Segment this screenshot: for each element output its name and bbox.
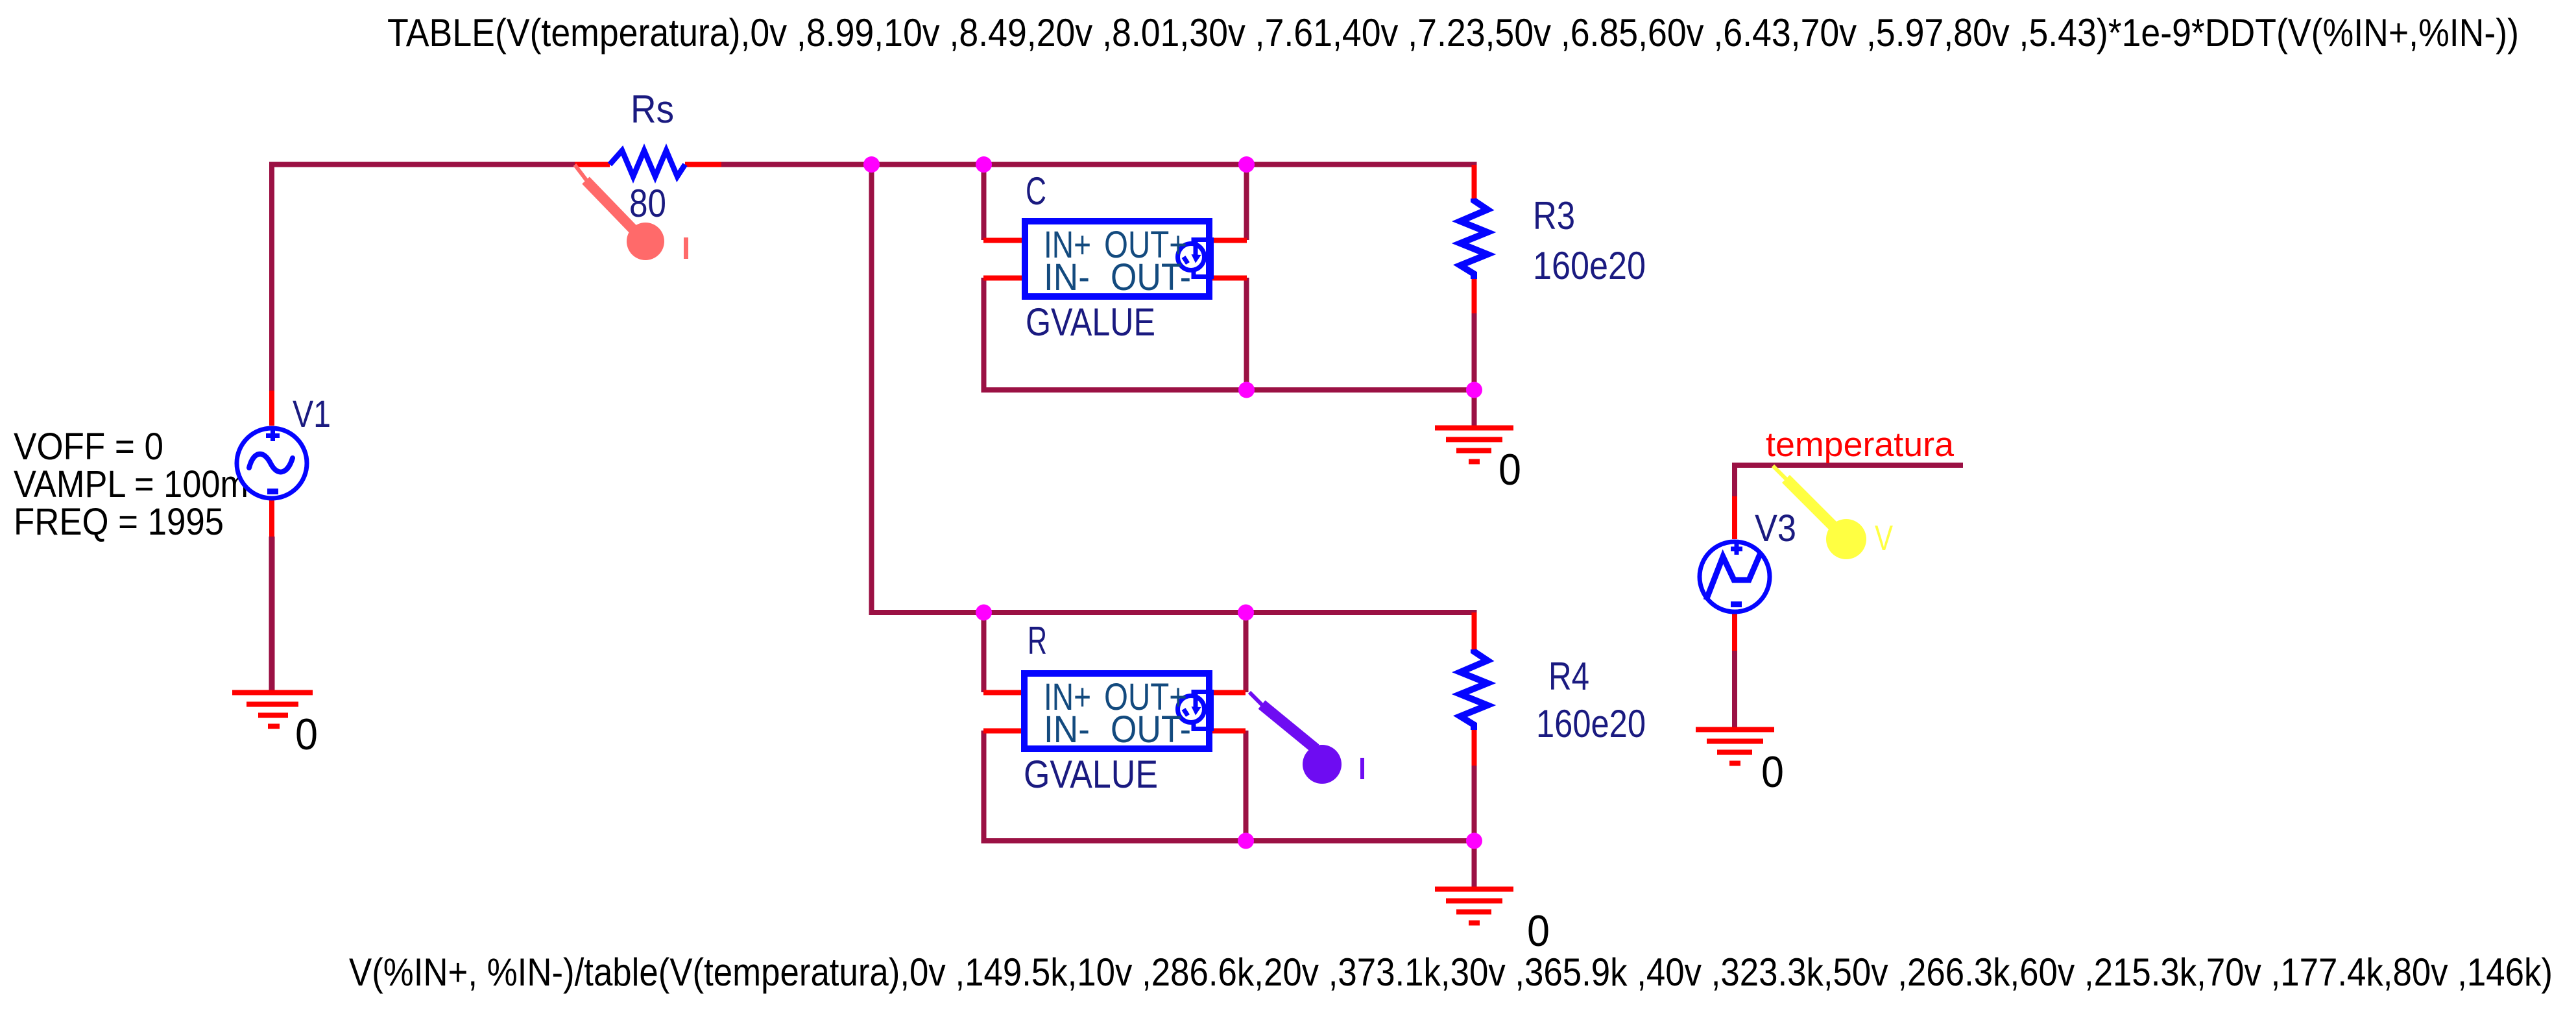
resistor R3 [1460,199,1487,279]
wire R3 bottom vertical [1472,313,1477,429]
junction dot wire2 R right [1238,605,1254,621]
wire C block left upper [981,164,987,240]
pin stub Rs left [575,162,610,167]
wire C block right upper [1244,164,1249,240]
svg-text:temperatura: temperatura [1766,426,1955,464]
resistor Rs [610,151,685,176]
wire C block left lower [984,278,1475,390]
svg-text:80: 80 [629,182,666,225]
wire V3 lower vertical [1732,651,1737,731]
ground V1 [232,693,313,727]
svg-text:R: R [1028,619,1047,662]
junction dot wire1 C left [976,156,992,173]
svg-text:VAMPL = 100m: VAMPL = 100m [14,463,248,505]
pin stub R IN- [983,729,1021,734]
svg-text:VOFF = 0: VOFF = 0 [14,426,163,468]
svg-text:IN-: IN- [1044,708,1090,751]
pin stub R4 bottom [1472,729,1477,766]
svg-text:C: C [1026,169,1046,213]
wire top horizontal right segment [721,165,1475,201]
svg-text:V(%IN+, %IN-)/table(V(temperat: V(%IN+, %IN-)/table(V(temperatura),0v ,1… [349,950,2553,994]
svg-text:IN-: IN- [1044,256,1090,298]
voltage source V1 (VSIN) [237,428,307,498]
ground R4 [1435,889,1513,923]
pin stub R IN+ [983,690,1021,695]
junction dot R3 bottom [1466,382,1482,398]
junction dot R4 bottom [1466,833,1482,849]
pin stub R OUT- [1212,729,1246,734]
wire temperatura horizontal [1735,465,1963,496]
wire R block right upper [1244,612,1249,692]
wire split vertical to lower block [872,164,1475,616]
svg-text:R3: R3 [1533,194,1575,237]
pin stub R3 top [1472,165,1477,200]
pin stub R3 bottom [1472,275,1477,313]
pin stub R4 top [1472,612,1477,651]
current probe I at R block OUT+ [1249,692,1364,784]
pin stub C IN+ [983,238,1022,243]
svg-text:Rs: Rs [631,88,674,131]
wire R block left lower [984,731,1475,841]
svg-text:0: 0 [295,710,318,759]
pin stub V1 bottom [269,500,274,537]
svg-text:FREQ = 1995: FREQ = 1995 [14,501,224,543]
junction dot wire1 split [863,156,880,173]
pin stub Rs right [685,162,721,167]
svg-text:V3: V3 [1755,507,1796,550]
wire R block right lower [1244,731,1249,841]
resistor R4 [1460,649,1487,730]
pin stub V1 top [269,391,274,426]
voltage probe V at temperatura [1773,466,1893,559]
svg-text:V: V [1875,518,1893,558]
svg-text:OUT-: OUT- [1111,708,1191,751]
wire C block right lower [1244,278,1249,390]
wire R block left upper [981,612,987,692]
junction dot wire1 C right [1238,156,1255,173]
svg-text:TABLE(V(temperatura),0v ,8.99,: TABLE(V(temperatura),0v ,8.99,10v ,8.49,… [387,11,2519,54]
junction dot wire2 R left [976,605,992,621]
current probe I at Rs [575,165,688,260]
svg-text:R4: R4 [1548,655,1589,698]
pin stub V3 top [1732,496,1737,539]
pin stub V3 bottom [1732,614,1737,651]
wire R4 bottom vertical [1472,766,1477,890]
pin stub C IN- [983,276,1022,281]
pin stub C OUT- [1212,276,1247,281]
svg-text:160e20: 160e20 [1536,702,1646,745]
voltage source V3 (VPULSE) [1700,542,1770,612]
GVALUE block C box [1025,221,1212,296]
ground V3 [1696,730,1774,764]
junction dot R bottom right vertical [1238,833,1254,849]
svg-text:OUT-: OUT- [1111,256,1191,298]
pin stub C OUT+ [1212,238,1247,243]
pin stub R OUT+ [1212,690,1246,695]
svg-text:0: 0 [1527,906,1550,956]
ground R3 [1435,428,1513,462]
wire top horizontal left segment [272,165,575,391]
GVALUE block R box [1024,673,1212,749]
svg-text:160e20: 160e20 [1533,244,1646,287]
svg-text:0: 0 [1499,445,1521,494]
svg-text:GVALUE: GVALUE [1024,753,1158,796]
svg-text:GVALUE: GVALUE [1026,300,1155,344]
svg-text:0: 0 [1761,747,1784,797]
junction dot C bottom right vertical [1238,382,1255,398]
svg-text:V1: V1 [293,393,331,435]
wire V1 lower vertical [269,537,275,692]
